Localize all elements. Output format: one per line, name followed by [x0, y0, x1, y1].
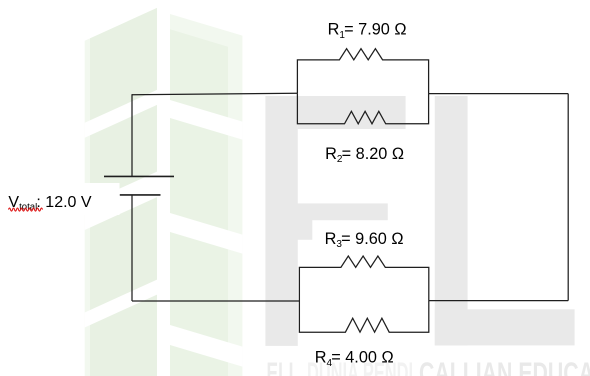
watermark letter L stem: [435, 96, 468, 345]
watermark right tower light base face: [170, 14, 242, 376]
wire right rail vertical: [567, 94, 569, 301]
resistor R1 with top parallel branch: [297, 49, 428, 94]
watermark right tower white band 1: [170, 100, 242, 140]
battery V1 negative plate: [120, 194, 161, 196]
watermark right tower dark front face: [170, 29, 228, 376]
watermark left tower white band 2: [85, 172, 157, 230]
wire top-right horizontal from box to right rail: [429, 93, 569, 95]
label box for R3: [312, 220, 410, 256]
watermark letter L foot: [435, 309, 575, 345]
watermark left tower dark front face: [90, 8, 157, 376]
watermark left tower white band 1: [85, 90, 157, 138]
wire bottom-left horizontal to R3R4 box: [132, 300, 299, 302]
watermark letter F middle bar: [296, 203, 387, 239]
svg-text:R1= 7.90 Ω: R1= 7.90 Ω: [328, 21, 407, 41]
wire left rail upper vertical: [131, 94, 133, 176]
wire left rail lower vertical: [131, 195, 133, 301]
watermark letter F top bar: [298, 96, 406, 129]
wire top-left horizontal from battery to parallel box: [132, 93, 297, 95]
watermark left tower light base face: [85, 8, 157, 376]
battery V1 positive plate: [104, 175, 174, 177]
wire bottom-right horizontal from right rail to R3R4 box: [429, 300, 568, 302]
resistor R4 with bottom branch of lower box: [299, 301, 428, 333]
watermark left tower white band 3: [85, 280, 157, 328]
watermark letter F stem: [265, 96, 297, 346]
resistor R2 with bottom parallel branch: [297, 93, 428, 124]
svg-text:R2= 8.20 Ω: R2= 8.20 Ω: [325, 145, 404, 165]
label box for Vtotal: [10, 183, 120, 215]
svg-text:ELI: ELI: [267, 357, 294, 376]
watermark right tower white band 3: [170, 325, 242, 367]
resistor R3 with top branch of lower box: [299, 256, 428, 301]
watermark right tower white band 2: [170, 213, 242, 254]
svg-text:CALLIAN EDUCA: CALLIAN EDUCA: [419, 357, 590, 376]
svg-text:R4= 4.00 Ω: R4= 4.00 Ω: [315, 349, 394, 369]
spellcheck squiggle under Vtotal: [9, 208, 43, 211]
